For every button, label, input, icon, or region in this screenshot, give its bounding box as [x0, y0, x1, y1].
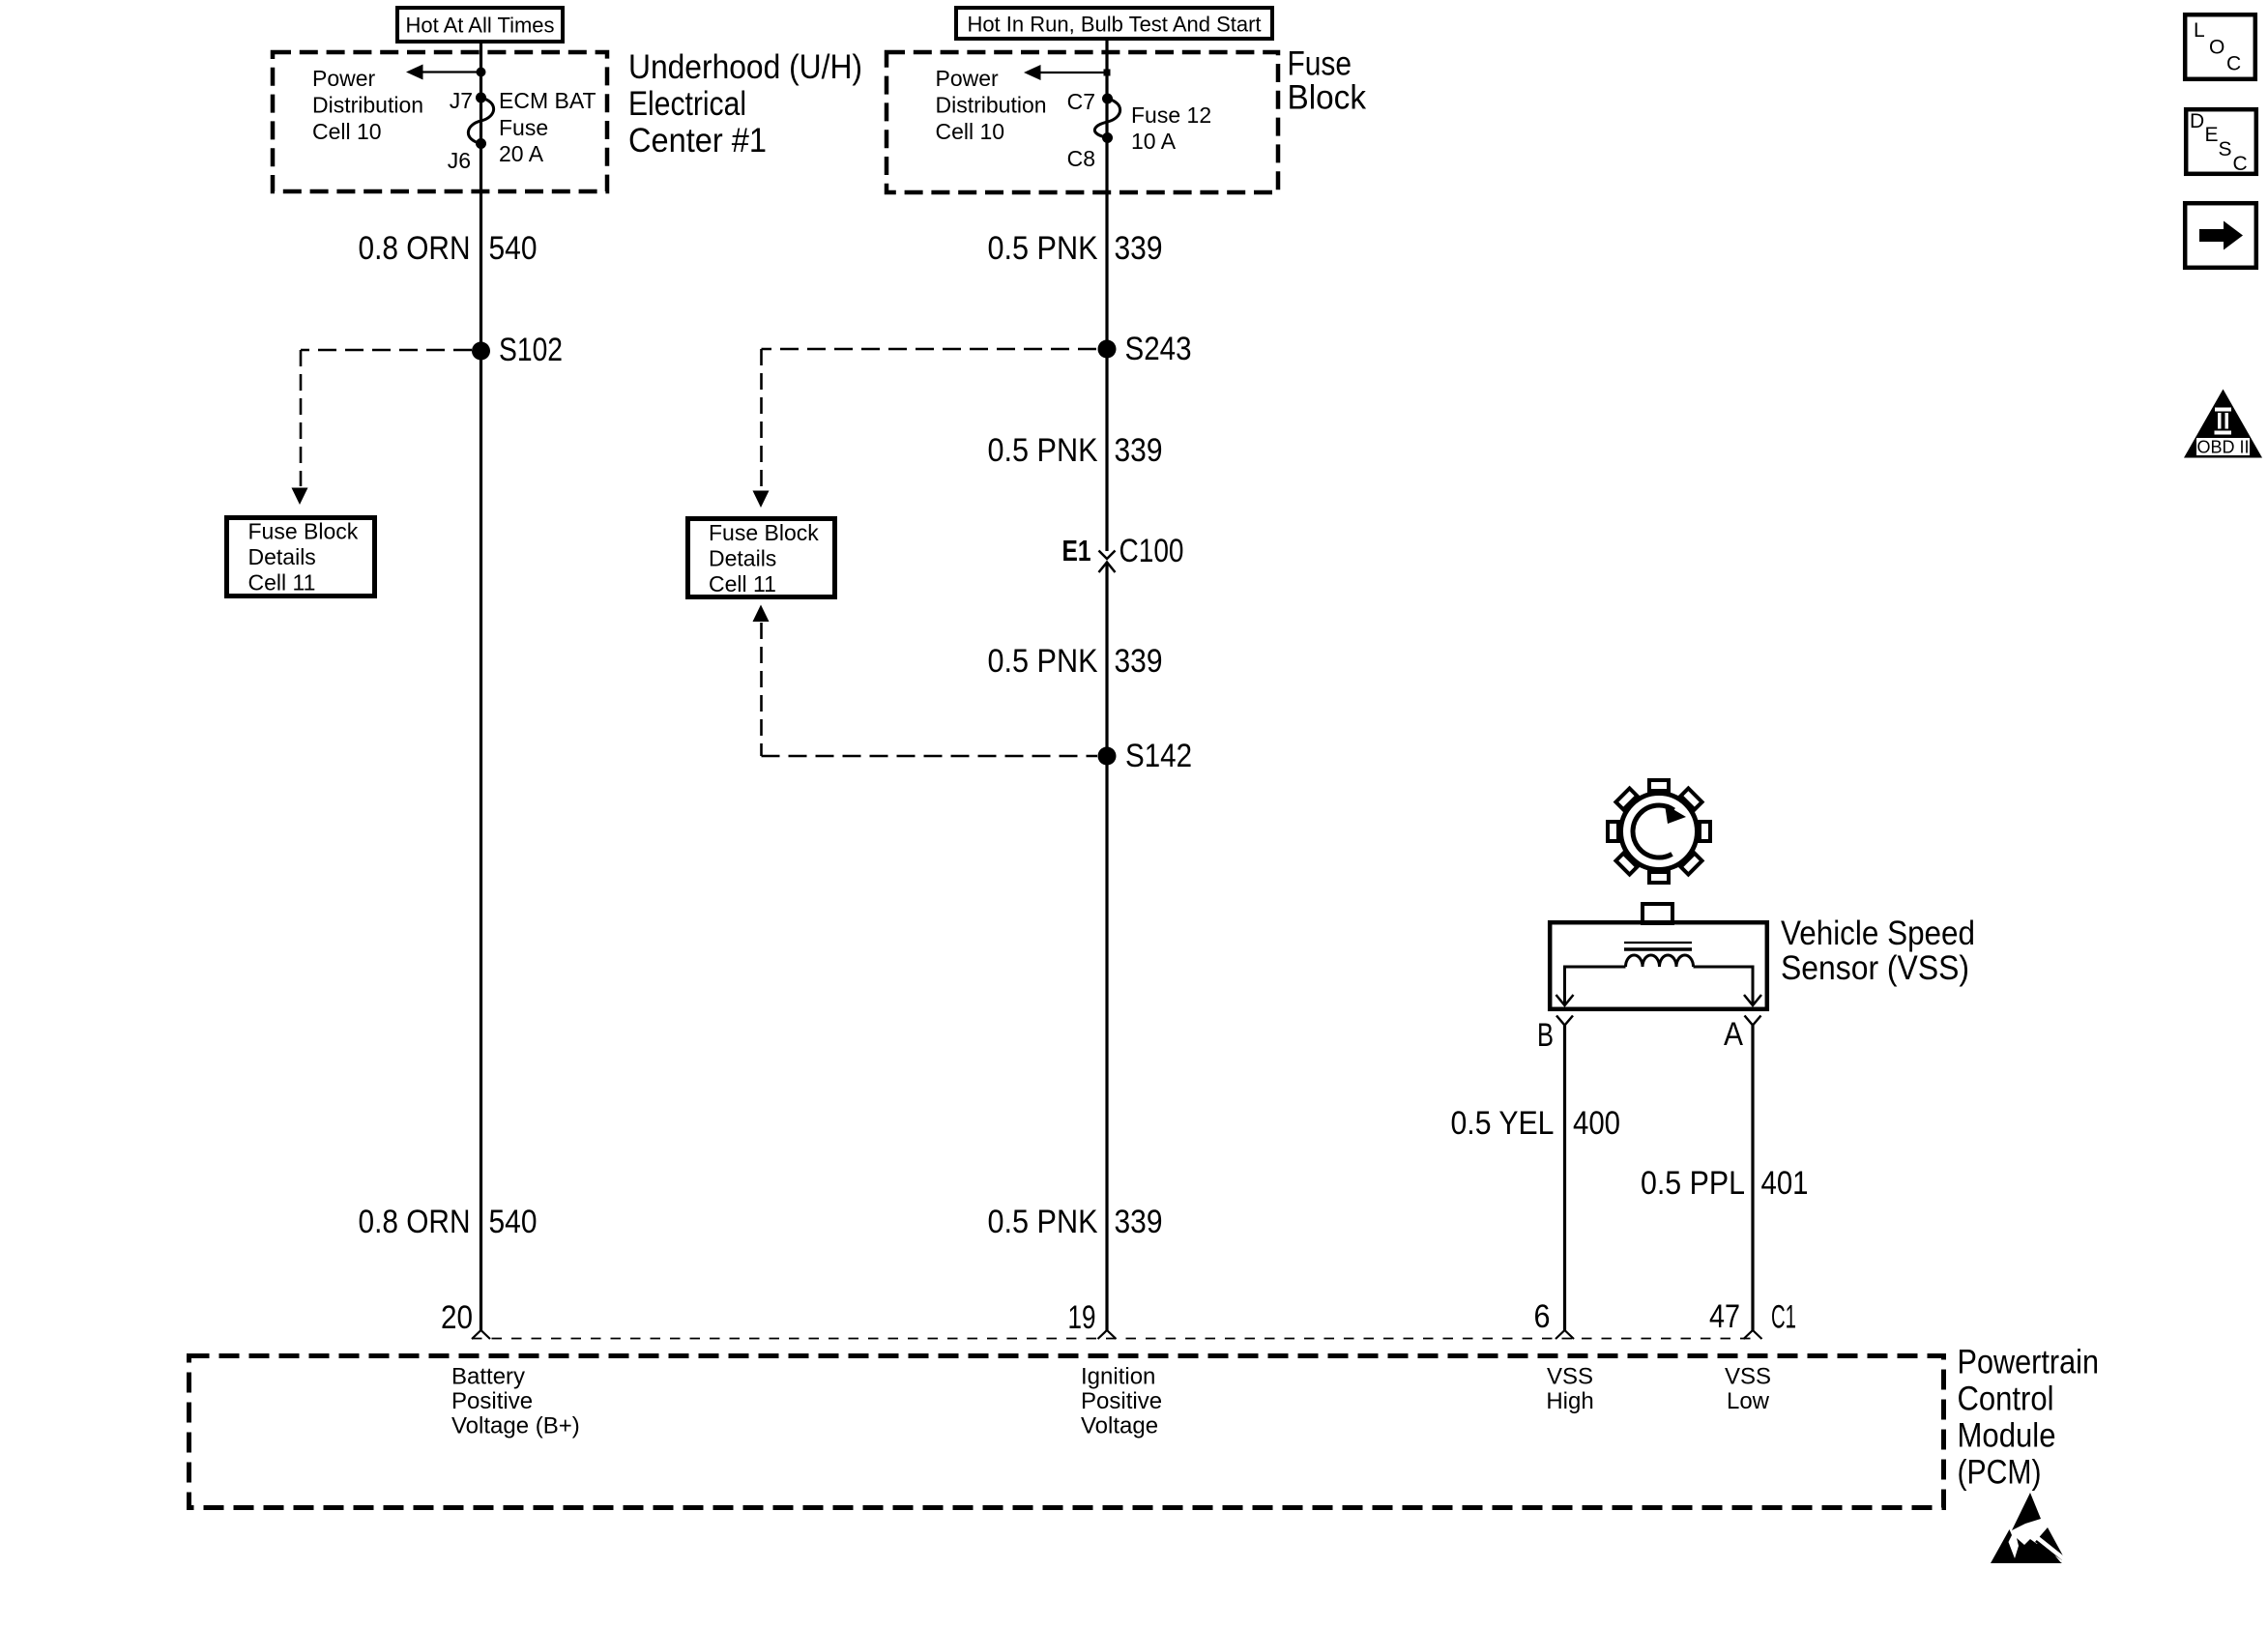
svg-text:C1: C1 — [1771, 1299, 1796, 1336]
arrowhead coil lead left — [1556, 995, 1574, 1005]
Fuse Block Details Cell 11 box (left) — [227, 518, 375, 596]
svg-text:S: S — [2219, 138, 2232, 160]
splice S142 dot — [1098, 747, 1117, 766]
junction square on branch (right) — [1104, 70, 1111, 76]
svg-text:Powertrain: Powertrain — [1958, 1344, 2100, 1381]
svg-text:Fuse 12: Fuse 12 — [1131, 102, 1211, 128]
VSS reluctor gear ring — [1621, 794, 1698, 870]
svg-text:Cell 11: Cell 11 — [709, 571, 776, 596]
arrowhead to Power Distribution Cell 10 (left) — [406, 65, 423, 80]
splice S102 dot — [472, 342, 490, 361]
svg-text:Hot At All Times: Hot At All Times — [405, 14, 554, 38]
svg-text:Details: Details — [248, 544, 316, 569]
terminal dot J7 — [476, 93, 486, 103]
label Ignition Positive Voltage — [1081, 1364, 1162, 1439]
svg-text:Cell 11: Cell 11 — [248, 570, 316, 596]
terminal dot C8 — [1102, 132, 1113, 143]
svg-text:A: A — [1724, 1016, 1743, 1053]
VSS rotation arrow arc — [1633, 805, 1673, 858]
svg-text:Block: Block — [1288, 79, 1367, 117]
LOC reference box — [2185, 15, 2255, 79]
power label box "Hot At All Times" — [397, 8, 563, 42]
svg-text:Details: Details — [709, 546, 776, 571]
label Underhood (U/H) Electrical Center #1 — [628, 48, 862, 160]
svg-text:0.5 PNK: 0.5 PNK — [988, 432, 1098, 469]
svg-text:E: E — [2205, 124, 2219, 146]
splice S243 dot — [1098, 340, 1117, 359]
wire label 0.5 PNK 339 (first) — [988, 230, 1163, 267]
ESD sensitive device symbol — [1991, 1493, 2067, 1563]
connector fork pin A — [1745, 1016, 1761, 1026]
svg-text:Voltage (B+): Voltage (B+) — [451, 1413, 580, 1439]
svg-text:D: D — [2190, 110, 2204, 132]
value label ECM BAT Fuse 20 A — [499, 88, 596, 166]
arrowhead coil lead right — [1744, 995, 1761, 1005]
svg-text:Distribution: Distribution — [936, 93, 1047, 118]
wire: branch to Power Distribution (right) — [1039, 72, 1107, 73]
Fuse Block Details Cell 11 box (right) — [688, 519, 835, 597]
svg-text:Cell 10: Cell 10 — [312, 119, 382, 144]
wire label 0.5 PNK 339 (second) — [988, 432, 1163, 469]
dashed reference link S102 to Fuse Block Details — [301, 349, 472, 352]
svg-text:339: 339 — [1115, 230, 1163, 267]
connector C100 symbol (male half arrow) — [1099, 563, 1116, 573]
arrowhead into Fuse Block Details (left) — [292, 488, 308, 506]
svg-text:C7: C7 — [1067, 89, 1095, 114]
svg-text:Electrical: Electrical — [628, 85, 746, 123]
connector fork pin 6 — [1556, 1330, 1574, 1339]
svg-text:540: 540 — [489, 1204, 538, 1240]
arrowhead into Fuse Block Details (right, down) — [753, 491, 770, 509]
svg-text:Positive: Positive — [1081, 1388, 1162, 1414]
svg-text:401: 401 — [1761, 1165, 1809, 1202]
Fuse Block dashed box — [887, 52, 1278, 192]
svg-text:Ignition: Ignition — [1081, 1364, 1155, 1390]
svg-text:C: C — [2226, 53, 2241, 75]
svg-text:0.5 PNK: 0.5 PNK — [988, 1204, 1098, 1240]
wire label 0.5 YEL 400 — [1451, 1105, 1621, 1142]
DESC reference box — [2186, 109, 2256, 175]
svg-text:339: 339 — [1115, 432, 1163, 469]
junction dot on branch (left) — [477, 68, 486, 77]
dashed reference link S142 to Fuse Block Details — [760, 623, 763, 756]
VSS rotation arrowhead — [1665, 804, 1686, 824]
wire label 0.8 ORN 540 (upper) — [359, 230, 538, 267]
svg-text:B: B — [1537, 1017, 1554, 1054]
svg-text:J6: J6 — [448, 148, 471, 173]
svg-text:20: 20 — [441, 1299, 473, 1336]
svg-text:Fuse: Fuse — [1288, 45, 1352, 83]
svg-text:VSS: VSS — [1547, 1364, 1593, 1390]
wire: 0.5 YEL 400 (VSS high) — [1563, 1026, 1566, 1331]
svg-text:S142: S142 — [1125, 738, 1192, 774]
svg-text:Battery: Battery — [451, 1364, 525, 1390]
svg-text:400: 400 — [1573, 1105, 1620, 1142]
svg-text:(PCM): (PCM) — [1958, 1454, 2042, 1492]
wire label 0.8 ORN 540 (lower) — [359, 1204, 538, 1240]
wire: coil lead left inside VSS — [1565, 967, 1626, 1005]
svg-text:Low: Low — [1727, 1388, 1770, 1414]
OBD II symbol triangle — [2184, 390, 2262, 458]
svg-text:C8: C8 — [1067, 146, 1095, 171]
svg-text:20 A: 20 A — [499, 141, 544, 166]
svg-text:Fuse Block: Fuse Block — [248, 519, 359, 544]
PCM connector dashed line — [472, 1338, 1755, 1340]
connector fork pin 47 — [1744, 1330, 1762, 1339]
svg-text:0.5 PNK: 0.5 PNK — [988, 230, 1098, 267]
terminal dot C7 — [1102, 94, 1113, 104]
svg-text:High: High — [1546, 1388, 1593, 1414]
svg-text:10 A: 10 A — [1131, 129, 1177, 154]
label Vehicle Speed Sensor (VSS) — [1781, 915, 1975, 987]
arrowhead into Fuse Block Details (right, up from S142) — [753, 605, 770, 623]
wire label 0.5 PNK 339 (fourth) — [988, 1204, 1163, 1240]
fuse ECM BAT 20 A symbol — [468, 98, 493, 144]
Vehicle Speed Sensor (VSS) box — [1550, 922, 1767, 1009]
VSS sensor stem — [1643, 904, 1672, 923]
svg-text:0.8 ORN: 0.8 ORN — [359, 230, 471, 267]
svg-text:VSS: VSS — [1725, 1364, 1771, 1390]
svg-text:OBD II: OBD II — [2196, 438, 2249, 457]
svg-text:Voltage: Voltage — [1081, 1413, 1158, 1439]
svg-text:Cell 10: Cell 10 — [936, 119, 1005, 144]
svg-text:ECM BAT: ECM BAT — [499, 88, 596, 113]
wire: 0.8 ORN 540 vertical (circuit 540) — [480, 44, 482, 1330]
label Powertrain Control Module (PCM) — [1958, 1344, 2100, 1492]
wire label 0.5 PNK 339 (third) — [988, 643, 1163, 680]
svg-text:Power: Power — [936, 66, 1000, 91]
connector fork pin B — [1556, 1016, 1573, 1026]
fuse Fuse 12 10 A symbol — [1094, 99, 1119, 138]
forward arrow box — [2185, 203, 2256, 268]
svg-text:339: 339 — [1115, 1204, 1163, 1240]
svg-text:Positive: Positive — [451, 1388, 533, 1414]
wire: 0.5 PNK 339 vertical lower — [1105, 563, 1108, 1331]
svg-text:Sensor (VSS): Sensor (VSS) — [1781, 949, 1969, 987]
svg-text:Power: Power — [312, 66, 376, 91]
connector fork pin 19 — [1098, 1330, 1117, 1339]
svg-text:19: 19 — [1068, 1299, 1096, 1336]
PCM dashed box — [189, 1356, 1944, 1508]
Underhood (U/H) Electrical Center #1 dashed box — [273, 52, 607, 191]
VSS pickup coil — [1626, 955, 1694, 967]
svg-text:339: 339 — [1115, 643, 1163, 680]
wire: coil lead right inside VSS — [1694, 967, 1754, 1005]
svg-text:Center #1: Center #1 — [628, 122, 767, 160]
wire: 0.5 PPL 401 (VSS low) — [1751, 1026, 1754, 1331]
svg-text:L: L — [2194, 19, 2205, 42]
label Fuse Block Details Cell 11 (right) — [709, 520, 819, 596]
power label box "Hot In Run, Bulb Test And Start" — [956, 8, 1272, 39]
svg-text:Fuse: Fuse — [499, 115, 548, 140]
svg-text:0.8 ORN: 0.8 ORN — [359, 1204, 471, 1240]
svg-text:0.5 PNK: 0.5 PNK — [988, 643, 1098, 680]
svg-text:C100: C100 — [1119, 533, 1184, 569]
svg-text:Module: Module — [1958, 1417, 2056, 1455]
svg-text:47: 47 — [1709, 1298, 1740, 1335]
svg-text:S102: S102 — [499, 332, 563, 368]
label Power Distribution Cell 10 (right) — [936, 66, 1047, 144]
svg-text:540: 540 — [489, 230, 538, 267]
svg-text:Control: Control — [1958, 1381, 2054, 1418]
wire: branch to Power Distribution (left) — [422, 71, 481, 73]
connector C100 symbol (female half) — [1099, 551, 1116, 560]
label Fuse Block Details Cell 11 (left) — [248, 519, 359, 596]
svg-text:S243: S243 — [1125, 331, 1192, 367]
wire: 0.5 PNK 339 vertical upper (circuit 339) — [1105, 41, 1108, 551]
wire label 0.5 PPL 401 — [1641, 1165, 1809, 1202]
label VSS High — [1546, 1364, 1593, 1415]
VSS reluctor gear teeth — [1608, 780, 1710, 883]
svg-text:J7: J7 — [450, 88, 473, 113]
svg-text:O: O — [2209, 37, 2224, 59]
dashed reference link S243 to Fuse Block Details — [762, 348, 1097, 351]
VSS pickup core lines — [1624, 942, 1692, 944]
svg-text:6: 6 — [1534, 1298, 1551, 1335]
svg-text:Distribution: Distribution — [312, 93, 423, 118]
svg-text:Hot In Run, Bulb Test And Star: Hot In Run, Bulb Test And Start — [967, 13, 1261, 37]
connector fork pin 20 — [472, 1330, 490, 1339]
svg-text:Underhood (U/H): Underhood (U/H) — [628, 48, 862, 86]
label Fuse Block — [1288, 45, 1367, 117]
svg-text:E1: E1 — [1062, 534, 1091, 567]
label Battery Positive Voltage (B+) — [451, 1364, 580, 1439]
value label Fuse 12 10 A — [1131, 102, 1211, 154]
svg-text:0.5 PPL: 0.5 PPL — [1641, 1165, 1745, 1202]
terminal dot J6 — [476, 138, 486, 149]
svg-text:C: C — [2233, 153, 2248, 175]
svg-text:0.5 YEL: 0.5 YEL — [1451, 1105, 1555, 1142]
svg-text:Fuse Block: Fuse Block — [709, 520, 819, 545]
label Power Distribution Cell 10 (left) — [312, 66, 423, 144]
label VSS Low — [1725, 1364, 1771, 1415]
arrowhead to Power Distribution Cell 10 (right) — [1024, 65, 1041, 80]
svg-text:Vehicle Speed: Vehicle Speed — [1781, 915, 1975, 952]
